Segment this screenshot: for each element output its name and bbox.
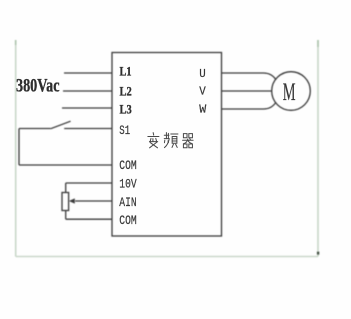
wire 10V [66,182,112,184]
frame top tick right [317,40,319,47]
wire W output [222,102,277,109]
faint scan frame right edge [317,40,319,257]
wire AIN [75,200,112,202]
wire L3 input [62,107,112,109]
svg-text:COM: COM [119,158,136,173]
switch S1 blade [51,121,71,129]
svg-text:L1: L1 [120,64,132,79]
svg-text:L2: L2 [120,84,132,99]
svg-text:V: V [199,85,206,99]
potentiometer wiper arrowhead [69,198,75,203]
wire to COM [19,164,112,166]
svg-text:10V: 10V [119,177,137,192]
label 变频器 (drawn strokes) [148,133,193,148]
svg-text:S1: S1 [119,123,130,138]
svg-text:AIN: AIN [119,195,136,210]
wire L1 input [64,72,112,74]
wire S1 right segment [64,128,112,130]
frame corner dot [317,252,319,255]
motor M1 circle [272,72,311,111]
svg-text:380Vac: 380Vac [16,77,60,97]
frame top tick left [15,40,17,45]
wire pot bottom vertical [65,211,67,220]
wire U output [222,73,277,80]
faint scan frame bottom edge [16,256,318,258]
svg-text:W: W [199,103,207,117]
svg-text:L3: L3 [120,102,133,117]
svg-text:COM: COM [119,213,136,228]
wire L2 input [63,90,112,92]
potentiometer RP1 body [62,193,69,211]
wire COM bottom [66,218,112,220]
wire V output [222,90,272,92]
char 器 [183,134,194,148]
wire pot top vertical [65,183,67,193]
char 变 [148,133,159,148]
svg-text:M: M [283,77,296,106]
svg-text:U: U [199,67,206,81]
inverter box U1 变频器 [112,53,222,237]
wire S1 left segment [19,128,51,130]
wire switch loop vertical [18,129,20,166]
char 频 [164,133,178,148]
faint scan frame left edge [15,40,17,257]
